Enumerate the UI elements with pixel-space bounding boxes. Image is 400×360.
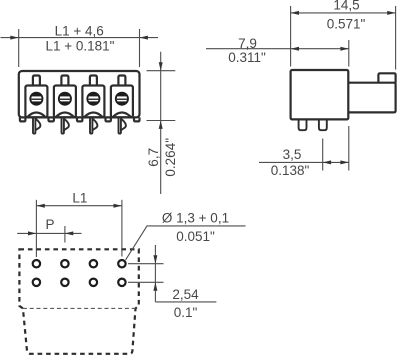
dim 6,7 up arrow: [159, 121, 163, 129]
svg-text:L1 + 0.181": L1 + 0.181": [46, 39, 115, 54]
hole row1 col4: [118, 260, 125, 267]
foot between module 2 and 3: [77, 117, 82, 121]
dim L1+4,6 extension line right: [139, 29, 141, 67]
dim 7,9 dimension line: [206, 48, 349, 50]
foot right: [134, 117, 140, 121]
side view pin 2: [319, 119, 327, 130]
module 4 tab: [118, 76, 125, 86]
svg-text:0.051": 0.051": [176, 229, 215, 244]
dim L1+4,6 right arrow: [140, 36, 148, 40]
module 2 bottom arc: [56, 113, 75, 118]
side view protrusion tab: [378, 73, 395, 82]
dim 2,54 horizontal line: [155, 301, 216, 303]
svg-text:L1 + 4,6: L1 + 4,6: [55, 23, 104, 38]
dim 14,5 left arrow: [291, 11, 299, 15]
hook pin 4: [119, 119, 121, 134]
dim L1+4,6 dimension line: [1, 37, 159, 39]
hole row2 col4: [118, 279, 125, 286]
hook flag 4: [121, 119, 126, 130]
hook flag 2: [64, 119, 69, 130]
module 1 tab: [33, 76, 40, 86]
dim L1 extension line right: [121, 200, 123, 257]
module 4 housing: [111, 86, 133, 118]
module 2 housing: [54, 86, 76, 118]
dim 7,9 left arrow: [291, 47, 299, 51]
hook flag 1: [35, 119, 40, 130]
dim P dimension line: [17, 232, 81, 234]
hole row2 col1: [33, 279, 40, 286]
dim L1 extension line left: [35, 200, 37, 257]
svg-text:2,54: 2,54: [172, 287, 199, 302]
svg-text:3,5: 3,5: [283, 147, 302, 162]
hook pin 2: [62, 119, 64, 134]
side view pin 1: [299, 119, 307, 130]
hole row2 col3: [90, 279, 97, 286]
module 3 housing: [82, 86, 104, 118]
dim P extension line: [64, 226, 66, 243]
drilling outline dashed: [19, 249, 138, 353]
leader line diagonal: [126, 226, 246, 260]
dim 3,5 dimension line: [259, 161, 349, 163]
module 3 tab: [90, 76, 97, 86]
foot between module 1 and 2: [49, 117, 54, 121]
dim 3,5 extension line right: [348, 126, 350, 171]
dim P right arrow: [65, 231, 73, 235]
module 4 screw: [115, 92, 129, 106]
svg-text:0.571": 0.571": [327, 16, 366, 31]
dim 2,54 up arrow: [153, 282, 157, 290]
module 1 screw: [29, 92, 43, 106]
dim 3,5 right arrow: [340, 160, 348, 164]
hole row2 col2: [61, 279, 68, 286]
svg-text:L1: L1: [72, 191, 87, 206]
hook flag 3: [92, 119, 97, 130]
foot between module 3 and 4: [106, 117, 111, 121]
module 3 screw: [86, 92, 100, 106]
side view body: [291, 70, 349, 119]
side view mating protrusion: [348, 83, 395, 113]
dim L1 dimension line: [36, 205, 122, 207]
svg-text:0.138": 0.138": [271, 163, 310, 178]
dim 6,7 top tick: [147, 70, 176, 72]
drilling inner thin dashed line: [23, 307, 136, 309]
dim L1 right arrow: [114, 204, 122, 208]
svg-text:P: P: [45, 217, 54, 232]
dim 14,5 extension line right: [395, 6, 397, 70]
dim 7,9 right arrow: [340, 47, 348, 51]
module 2 screw: [58, 92, 72, 106]
svg-text:0.1": 0.1": [174, 305, 198, 320]
dim 2,54 row tick 1: [128, 263, 164, 265]
dim P left arrow: [28, 231, 36, 235]
hole row1 col2: [61, 260, 68, 267]
svg-text:14,5: 14,5: [333, 0, 359, 13]
svg-text:0.264": 0.264": [163, 138, 178, 177]
dim 14,5 right arrow: [387, 11, 395, 15]
svg-text:Ø 1,3 + 0,1: Ø 1,3 + 0,1: [162, 211, 229, 226]
module 2 tab: [61, 76, 68, 86]
dim 3,5 left arrow: [323, 160, 331, 164]
dim 2,54 down arrow: [153, 255, 157, 263]
svg-text:6,7: 6,7: [146, 148, 161, 167]
dim 14,5 extension line left: [290, 6, 292, 67]
foot left: [20, 117, 26, 121]
module 1 housing: [25, 86, 47, 118]
dim 2,54 vertical line: [154, 245, 156, 302]
dim L1+4,6 extension line left: [18, 29, 20, 67]
dim 6,7 vertical line: [160, 52, 162, 194]
module 4 bottom arc: [113, 113, 132, 118]
svg-text:7,9: 7,9: [238, 36, 257, 51]
hole row1 col3: [90, 260, 97, 267]
dim 3,5 extension line pin2: [322, 139, 324, 171]
dim L1+4,6 left arrow: [10, 36, 18, 40]
dim 7,9 extension line right: [348, 40, 350, 67]
dim 14,5 dimension line: [291, 12, 396, 14]
hook pin 1: [33, 119, 35, 134]
dim 2,54 row tick 2: [128, 281, 164, 283]
dim L1 left arrow: [36, 204, 44, 208]
hole row1 col1: [33, 260, 40, 267]
module 3 bottom arc: [84, 113, 103, 118]
connector body outline: [19, 71, 140, 117]
hook pin 3: [90, 119, 92, 134]
dim 6,7 bottom tick: [147, 120, 176, 122]
module 1 bottom arc: [27, 113, 46, 118]
svg-text:0.311": 0.311": [228, 50, 266, 65]
dim 6,7 down arrow: [159, 62, 163, 70]
